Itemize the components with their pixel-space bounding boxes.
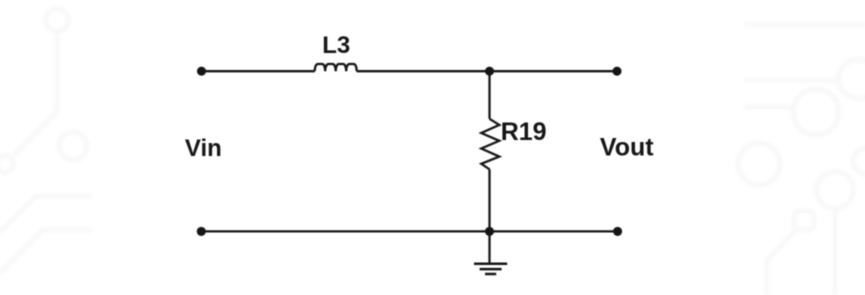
wire: R19 down to bottom net <box>488 169 490 231</box>
node: top-right terminal dot <box>612 67 621 76</box>
node: bottom junction dot <box>485 227 494 236</box>
node: bottom-right terminal dot <box>613 227 622 236</box>
resistor R19 <box>481 119 499 170</box>
ground <box>474 231 507 274</box>
node: top-left terminal dot <box>197 67 206 76</box>
wire bottom net <box>201 230 617 232</box>
svg-text:Vin: Vin <box>185 135 222 162</box>
wire top: L3 to Vout node <box>357 70 617 72</box>
svg-text:R19: R19 <box>501 118 547 146</box>
svg-text:Vout: Vout <box>600 134 654 162</box>
inductor L3 <box>315 64 357 71</box>
wire: junction down to R19 <box>488 71 490 119</box>
svg-text:L3: L3 <box>322 32 350 59</box>
node: top junction dot <box>485 67 494 76</box>
wire top: Vin node to L3 <box>202 70 315 72</box>
node: bottom-left terminal dot <box>197 227 206 236</box>
